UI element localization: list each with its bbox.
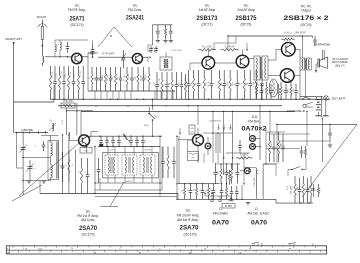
capacitor C32 AF stage (249, 70, 251, 84)
transformer T5 driver (254, 56, 260, 80)
diode D4 OA70 FM detector B (250, 144, 256, 150)
ground G2 (42, 180, 46, 182)
svg-text:Output: Output (301, 9, 311, 13)
junction dots (53, 99, 55, 101)
svg-text:C₂₉: C₂₉ (241, 82, 243, 85)
wire battery vertical (321, 97, 323, 117)
wire Q6 collector (242, 50, 244, 56)
svg-text:C₁₅: C₁₅ (146, 76, 148, 79)
svg-text:S₁₋₂: S₁₋₂ (154, 115, 159, 118)
capacitor C18 IF secondary (173, 147, 175, 162)
transistor Q6 2SB175 2nd AF amp (236, 55, 249, 68)
svg-text:B·155: B·155 (225, 205, 232, 208)
svg-text:OSC: OSC (84, 151, 89, 153)
resistor R57 AF feedback (269, 132, 271, 140)
svg-text:C·BC159E: C·BC159E (21, 129, 33, 132)
svg-text:R₅₇: R₅₇ (267, 143, 269, 146)
wire bottom bus connector (242, 198, 276, 200)
capacitor C38 output stage (295, 84, 297, 91)
capacitor C17 IF coupling (166, 72, 168, 85)
svg-text:24M·R/GF: 24M·R/GF (294, 32, 306, 35)
capacitor C28 AF stage (223, 70, 225, 84)
wire Q5 collector (207, 50, 209, 57)
resistor R70 IF decoupling (185, 74, 187, 81)
wire Q3 lower components (80, 148, 92, 154)
svg-text:R₁₅ 8K: R₁₅ 8K (140, 74, 142, 80)
svg-text:R₅: R₅ (66, 164, 68, 166)
svg-text:FM ANT: FM ANT (37, 15, 47, 19)
earphone jack J1 (303, 104, 306, 107)
transistor Q7 2SB176 output upper (282, 43, 296, 57)
wire Q8 collector return (299, 76, 301, 100)
capacitor C34 output stage (270, 84, 272, 91)
capacitor C18 FM conv stage (143, 67, 145, 78)
svg-text:R₆₃: R₆₃ (305, 186, 307, 189)
svg-text:R₅₁: R₅₁ (182, 188, 184, 191)
svg-text:AM Det. & AGC: AM Det. & AGC (247, 212, 270, 216)
resistor R2 FM RF stage (50, 66, 52, 75)
resistor R17 FM conv stage (137, 67, 139, 74)
capacitor C44 Q4 base (179, 128, 181, 133)
IF transformer T4 (140, 155, 155, 175)
capacitor C40 (43, 141, 45, 145)
capacitor C8 neutralizing (92, 44, 94, 50)
svg-text:(OC170): (OC170) (81, 233, 94, 237)
resistor R30 150 ohm feed (281, 38, 283, 40)
svg-text:0.01: 0.01 (117, 76, 119, 80)
resistor R22 47K 2nd AF collector load (221, 49, 224, 51)
svg-text:FM Limiter: FM Limiter (213, 212, 229, 216)
svg-text:R₆₁: R₆₁ (297, 186, 299, 189)
svg-text:C₅₃: C₅₃ (200, 188, 202, 191)
svg-text:B·BC186: B·BC186 (63, 101, 73, 103)
wire left mid verticals (66, 108, 68, 135)
thermistor bias network (269, 79, 278, 97)
resistor R45 detector load (236, 157, 239, 159)
wire ferrite rod connections (41, 135, 59, 137)
wire Q7 collector to output transformer (295, 49, 300, 58)
svg-text:0A70×2: 0A70×2 (242, 125, 268, 132)
dial pointer marks (253, 243, 255, 246)
svg-text:R₂₉: R₂₉ (234, 82, 236, 85)
coil L4 AM osc (52, 123, 54, 131)
capacitors IF strip top row (100, 136, 102, 140)
wire left column lower (16, 133, 18, 169)
svg-text:C₃ 30P: C₃ 30P (61, 70, 63, 77)
svg-text:R₄₇: R₄₇ (229, 170, 231, 173)
svg-text:4.7K: 4.7K (74, 73, 76, 78)
transistor Q5 2SB173 1st AF amp (202, 57, 215, 70)
resistor R35 output stage (280, 82, 282, 87)
wire AF top feeds (227, 36, 229, 50)
wire main emitter bus (50, 98, 330, 100)
svg-text:AM Conv,: AM Conv, (81, 218, 95, 222)
wire switch to IF strip (152, 99, 154, 110)
transistor Q8 2SB176 output lower (280, 69, 294, 83)
AM section components (68, 150, 70, 159)
svg-text:R₄: R₄ (195, 83, 197, 85)
capacitor C7 FM RF stage (73, 66, 75, 82)
svg-text:R₂₁ 100K: R₂₁ 100K (202, 46, 212, 49)
capacitor C72 AGC (221, 184, 223, 191)
svg-text:FM RF Amp,: FM RF Amp, (68, 8, 86, 12)
wire Q8 collector to output transformer (294, 70, 300, 76)
switch S1-2 band select (148, 113, 150, 115)
svg-text:R₂₃: R₂₃ (191, 82, 193, 85)
dial cord to pointer from AM tuning gang (12, 185, 42, 201)
capacitor C70 IF decoupling (181, 72, 183, 85)
svg-text:C₂: C₂ (35, 167, 37, 169)
switch S1-1 tone (291, 169, 292, 170)
wire AM section verticals (62, 135, 64, 193)
wire supply bus FM section (88, 90, 175, 92)
resistor R31 AF stage (243, 70, 245, 78)
svg-text:100µF: 100µF (253, 80, 255, 86)
capacitor C16 FM conv stage (131, 67, 133, 78)
capacitor C19 IF coupling (176, 72, 178, 85)
capacitor C53 AGC (202, 184, 204, 191)
svg-text:(OC170): (OC170) (183, 233, 196, 237)
svg-text:R₄₅: R₄₅ (218, 170, 220, 173)
svg-text:D,: D, (255, 207, 258, 211)
svg-text:EARPHONE JK: EARPHONE JK (287, 109, 306, 113)
svg-text:C₄₅: C₄₅ (213, 170, 215, 173)
wire output stage supply bus (228, 35, 313, 37)
capacitor C71 driver bypass (261, 84, 263, 91)
capacitor C34 AF stage (261, 70, 263, 84)
dial scale ruler (6, 246, 326, 254)
wire Q1 base (45, 56, 72, 58)
wire right mid rails (267, 131, 285, 133)
wire output transformer center tap (305, 70, 307, 97)
capacitor C21 osc grounded (170, 25, 172, 31)
svg-text:C₇ 0.01: C₇ 0.01 (80, 71, 82, 77)
wire Q2 base (98, 56, 132, 58)
resistor R18 IF coupling (171, 72, 173, 80)
diode D6 OA70 AM detector (244, 168, 250, 174)
svg-text:(OC76): (OC76) (300, 23, 311, 27)
wire Q3 top (90, 132, 98, 137)
resistor R60 tone (305, 146, 307, 149)
capacitor C24 AF stage (198, 70, 200, 84)
capacitor C49 detector (237, 163, 239, 172)
svg-text:C₁₁: C₁₁ (112, 76, 114, 79)
svg-text:R₁ 2K: R₁ 2K (52, 71, 54, 77)
IF transformer T3 (122, 155, 137, 175)
wire left tuning bus (15, 132, 48, 134)
svg-text:R₁₁ 10K: R₁₁ 10K (107, 74, 109, 81)
wire detector mesh (226, 152, 250, 154)
wire IF right vertical (178, 136, 180, 184)
wire ext battery (325, 100, 327, 116)
diode D5 OA70 FM limiter (205, 143, 211, 149)
svg-text:C₆₃: C₆₃ (309, 186, 311, 189)
bottom terminal links (205, 195, 231, 197)
wire detector extra mesh (187, 140, 189, 152)
wire Q1 collector (82, 56, 88, 58)
wire IF strip second bus (98, 146, 160, 148)
svg-text:C₉ 5P: C₉ 5P (102, 75, 104, 81)
resistor R16 IF coupling (161, 72, 163, 80)
wire Q1 top components (60, 42, 61, 50)
svg-text:C₂₃: C₂₃ (201, 82, 203, 85)
resistor R29 AF stage (229, 70, 231, 78)
capacitor C5 FM RF stage (63, 66, 65, 82)
svg-text:D₇: D₇ (316, 189, 318, 191)
wire Q3 collector (86, 146, 88, 153)
wire limiter diode leads (207, 137, 209, 142)
wire IFT top lead (165, 53, 167, 58)
extra detector bottom parts (208, 184, 210, 188)
svg-text:C₄₇: C₄₇ (235, 170, 237, 173)
capacitor C34 earphone coupling (322, 50, 324, 60)
svg-text:1st AF Amp: 1st AF Amp (199, 8, 216, 12)
resistor R67 bias (318, 184, 320, 188)
resistor R65 output return (310, 176, 312, 184)
resistor R20 osc grounded (165, 25, 167, 29)
svg-text:TR,: TR, (185, 209, 190, 213)
svg-text:R₇: R₇ (79, 171, 81, 173)
svg-text:R₂₇: R₂₇ (221, 82, 223, 85)
label box B-BC155 (189, 125, 195, 134)
svg-text:2SA241: 2SA241 (126, 15, 144, 22)
capacitor C30 AF stage (236, 70, 238, 84)
resistor R50 AGC (184, 184, 186, 188)
wire bottom bus left (40, 192, 178, 194)
coil L1 FM antenna coil (42, 56, 43, 63)
svg-text:AM 1st IF Amp,: AM 1st IF Amp, (177, 218, 199, 222)
svg-text:0A70: 0A70 (251, 220, 267, 227)
dial cord pointer middle (110, 182, 124, 206)
wire right supply line (276, 123, 357, 125)
wire Q6 collector to driver transformer (249, 58, 254, 60)
wire AM antenna feed (13, 43, 15, 133)
wire Q4 leads (188, 139, 193, 141)
svg-text:C₆₁: C₆₁ (292, 186, 294, 189)
svg-text:C₅₇: C₅₇ (271, 143, 273, 146)
junction dots pass2 (59, 56, 61, 58)
capacitor C73 (231, 186, 233, 192)
svg-text:R₆₇: R₆₇ (320, 188, 322, 191)
svg-text:VOLUME: VOLUME (254, 177, 256, 187)
svg-text:1st IFT: 1st IFT (108, 149, 115, 152)
terminal TP3 (230, 196, 232, 198)
jack J2 external battery (324, 96, 328, 100)
svg-text:R₃ 6K: R₃ 6K (70, 71, 72, 77)
wire conv top bus (153, 24, 173, 26)
svg-text:FM Det.: FM Det. (248, 119, 259, 123)
resistor R52 AGC (196, 184, 198, 188)
resistor R7 boxed B-BC186 (61, 103, 75, 108)
svg-text:0.04: 0.04 (224, 170, 226, 174)
IF transformer block (103, 153, 159, 178)
svg-text:2SB175: 2SB175 (236, 15, 257, 22)
wire Q5 base (190, 62, 202, 64)
svg-text:C₂₅: C₂₅ (217, 82, 219, 85)
resistor R33 AF stage (255, 70, 257, 78)
IF transformer T2 (105, 155, 118, 175)
svg-text:0A70: 0A70 (212, 220, 229, 227)
wire right mid horizontals (270, 133, 310, 135)
transistor Q4 2SA70 FM 2nd IF amp (193, 135, 204, 146)
transistor Q1 2SA71 FM RF amp (72, 53, 82, 63)
capacitor C33 (314, 36, 316, 40)
svg-text:(FM): (FM) (144, 125, 149, 127)
svg-text:2nd AF Amp: 2nd AF Amp (237, 8, 255, 12)
terminal TP2 (219, 196, 221, 199)
capacitor C20 osc grounded (157, 25, 159, 31)
svg-text:C₂₂ 470P: C₂₂ 470P (225, 46, 235, 49)
tuning gang link right leg (114, 27, 132, 47)
capacitor C60 tone (301, 146, 303, 151)
svg-text:220: 220 (293, 88, 295, 91)
svg-text:1.5-7P 30P: 1.5-7P 30P (171, 50, 182, 52)
resistor R13 FM conv stage (115, 67, 117, 74)
capacitor C36 output stage (285, 84, 287, 91)
transistor Q3 2SA70 FM 1st IF amp AM conv (79, 135, 90, 146)
svg-text:R₃₃: R₃₃ (283, 88, 285, 91)
resistor R21 100K 1st AF collector load (198, 49, 201, 51)
svg-text:L₃: L₃ (72, 164, 74, 166)
ground G3 (246, 202, 250, 204)
variable capacitor CT2 AM tuning (22, 134, 24, 195)
svg-text:L₄: L₄ (50, 119, 52, 122)
capacitor C51 AGC (190, 184, 192, 191)
variable capacitor CT3 AM osc tuning (29, 160, 31, 180)
arrow AM IF tuning (123, 134, 127, 140)
svg-text:(100)PF/16V: (100)PF/16V (209, 121, 221, 123)
svg-text:A·AU₂₂: A·AU₂₂ (284, 32, 292, 35)
capacitor C64 output return (307, 178, 309, 190)
capacitor C60 AF feedback (282, 134, 284, 147)
wire volume to AF (263, 164, 276, 168)
svg-text:0.01: 0.01 (179, 82, 181, 86)
junction pad (100, 144, 104, 147)
svg-text:2SB173: 2SB173 (197, 15, 218, 22)
svg-text:C₁₃: C₁₃ (129, 76, 131, 79)
svg-text:R₁₃ 3K: R₁₃ 3K (124, 74, 126, 80)
wire shield box top (81, 111, 295, 113)
resistor R71 driver bias (256, 82, 258, 87)
resistor R19 FM conv stage (148, 67, 150, 74)
svg-text:R₃₁: R₃₁ (259, 82, 261, 85)
resistor R63 output return (302, 176, 304, 184)
wire AVC bus (58, 105, 282, 107)
capacitor C17 IF secondary (162, 147, 164, 162)
wire Q3 base (68, 133, 70, 140)
resistor R72 (278, 84, 280, 88)
wire bottom bus right (276, 202, 313, 204)
resistor R15 FM conv stage (126, 67, 128, 74)
wire detector feeds from bus (197, 106, 199, 125)
svg-text:2SA70: 2SA70 (180, 225, 199, 232)
extra verticals conv region (91, 67, 93, 74)
svg-text:2nd IFT: 2nd IFT (125, 181, 133, 183)
dial cord to pointer from FM tuning gang (19, 135, 88, 196)
svg-text:R₁₇: R₁₇ (159, 82, 161, 85)
svg-text:(OC71): (OC71) (201, 23, 212, 27)
svg-text:(OC171): (OC171) (70, 23, 83, 27)
capacitor C62 output return (299, 178, 301, 190)
resistor R25 AF stage (203, 70, 205, 78)
wire supply drops to output stage (302, 36, 304, 58)
wire AF interstage (215, 62, 237, 64)
ground G1 (27, 180, 31, 182)
capacitor row above detector (218, 124, 220, 128)
terminal TP1 (211, 194, 213, 200)
wire speaker feed (316, 63, 318, 65)
trimmer capacitor CT1 FM osc (123, 50, 125, 58)
svg-text:R₅₅: R₅₅ (206, 188, 208, 191)
svg-text:C₅: C₅ (60, 164, 62, 166)
svg-text:AM EXT ANT: AM EXT ANT (5, 37, 22, 41)
right battery column parts (329, 128, 331, 133)
dial scale ticks (12, 246, 14, 248)
svg-text:R₉: R₉ (97, 77, 99, 79)
capacitor C19 converter side (98, 158, 100, 170)
resistor R46 detector (220, 163, 222, 169)
speaker SP 2.5 inch (317, 59, 319, 68)
svg-text:3rd IFT: 3rd IFT (144, 149, 152, 152)
resistor R37 output stage (290, 82, 292, 87)
svg-text:(8Ω) V.C: (8Ω) V.C (335, 64, 345, 67)
transistor Q2 2SA241 FM converter (132, 54, 142, 64)
tuning gang link left leg (98, 27, 114, 47)
transformer T1 FM 1st IF input (160, 57, 172, 70)
resistor R6 FM RF stage (68, 66, 70, 75)
wire RF stage feed (53, 85, 55, 102)
capacitor C12 FM conv stage (110, 67, 112, 78)
switch S2 power on volume (302, 97, 310, 99)
resistor R11 FM conv stage (105, 67, 107, 74)
svg-text:C₇: C₇ (85, 171, 87, 173)
resistor R27 AF stage (219, 70, 221, 78)
diode D3 OA70 FM detector A (250, 136, 256, 142)
resistor R48 detector (231, 163, 233, 169)
capacitor C3 FM RF stage (54, 66, 56, 82)
svg-text:EXT BATT: EXT BATT (332, 96, 346, 100)
resistor R8 FM RF stage (78, 66, 80, 75)
resistor R23 AF stage (193, 70, 195, 78)
svg-text:FM Conv,: FM Conv, (128, 8, 142, 12)
svg-text:155: 155 (191, 132, 194, 134)
svg-text:C₁: C₁ (35, 145, 37, 147)
dial cord right diagonal (302, 124, 357, 197)
trimmer capacitors osc (150, 46, 152, 49)
resistor R61 output return (294, 176, 296, 184)
wire IF block stubs (107, 147, 109, 156)
resistor R17 IF secondary (167, 147, 169, 156)
svg-text:2SB176 × 2: 2SB176 × 2 (284, 15, 330, 22)
capacitor C14 FM conv stage (120, 67, 122, 78)
capacitor C9 FM RF stage (82, 66, 84, 82)
svg-text:R₈: R₈ (94, 77, 96, 79)
svg-text:R₂₅ 1K: R₂₅ 1K (208, 80, 210, 86)
svg-text:EARPHONE: EARPHONE (314, 43, 330, 47)
wire detector bus (178, 183, 219, 185)
wire Q4 base feed (178, 139, 193, 141)
wire Q2 collector to IFT (142, 56, 148, 58)
resistor R55 (229, 170, 231, 174)
svg-text:GERM: GERM (228, 201, 234, 203)
wire bottom bus middle (178, 198, 242, 200)
wire volume pot returns (255, 196, 257, 199)
capacitor C47 detector (226, 163, 228, 172)
svg-text:0.02: 0.02 (154, 82, 156, 86)
resistor R59 AF feedback (278, 132, 280, 140)
svg-text:R₄₅ 763: R₄₅ 763 (240, 155, 249, 157)
junction dots pass3 (95, 105, 96, 106)
